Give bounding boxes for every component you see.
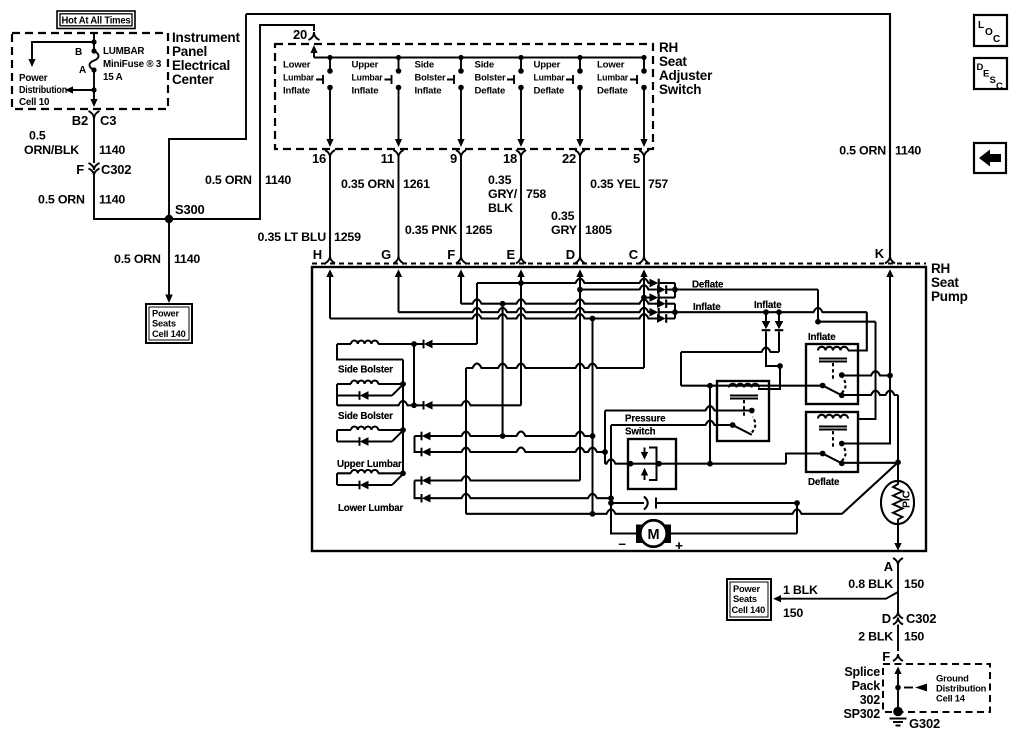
wire 758 pin18 to E [520,163,522,256]
switch feed bus [314,57,644,59]
svg-text:Panel: Panel [172,44,207,59]
solenoid coil group2 [337,383,351,385]
label 0.35 LT BLU 1259 [258,230,362,244]
check diode down 1 [765,312,767,321]
wire middle blade line [611,421,733,426]
check diode group1 [423,340,425,348]
pin K entry arrow [886,270,893,278]
arrow up at pin 20 inside switch box [313,51,315,58]
inflate diode output bus [674,304,676,319]
connector F / C302 [76,162,131,177]
node D on row2 [577,287,583,293]
label 0.35 PNK 1265 [405,223,493,237]
back arrow box [974,143,1006,173]
svg-text:Inflate: Inflate [415,86,442,97]
wire group3 left loop [336,430,338,442]
wire into splice pack [894,667,901,675]
wire row4 (G inflate feed) [399,308,650,313]
svg-text:0.35 LT BLU: 0.35 LT BLU [258,230,327,244]
node inflate row tap 1 [763,309,769,315]
svg-text:302: 302 [860,693,881,707]
wire inflate output row [675,308,867,313]
Power Seats Cell 140 box (bottom) [727,579,771,620]
wire group3 left loop [336,430,338,442]
wire inflate valve coil common [681,385,823,387]
wire pressure switch line [605,459,786,464]
svg-text:16: 16 [312,151,326,166]
svg-text:Deflate: Deflate [808,477,840,488]
solenoid coil group3 [337,429,351,431]
wire row4 (G inflate feed) [399,308,650,313]
svg-text:Power: Power [19,73,48,84]
svg-text:Adjuster: Adjuster [659,68,713,83]
wire group1 return loop [337,344,403,360]
solenoid coil group1 [337,343,351,345]
svg-text:1140: 1140 [265,173,291,187]
connector F splice pack [893,654,903,661]
pin A exit arrow [894,543,901,551]
thermistor PIC [881,481,914,524]
wire nest riser x611 to motor minus [611,425,638,534]
svg-text:E: E [507,247,516,262]
svg-text:758: 758 [526,187,546,201]
group4 right pair upper [415,480,422,482]
wire group1-group2 tie [413,344,415,405]
svg-text:Seat: Seat [931,275,959,290]
diagonal ground bus to PIC node [842,462,898,514]
pressure switch box [628,439,676,489]
wire S300 up to top bus [169,14,246,219]
wire group2 left loop [336,384,338,405]
arrow down at box bottom [90,99,97,107]
wire pin C stem [643,276,645,368]
svg-text:RH: RH [659,40,678,55]
wire pin D stem [579,276,581,481]
svg-text:Cell 14: Cell 14 [936,693,966,704]
motor plus riser [796,503,798,534]
wire deflate output row [675,289,818,291]
wire common riser x466 [465,368,467,514]
svg-text:RH: RH [931,261,950,276]
svg-text:1140: 1140 [99,193,125,207]
svg-text:1805: 1805 [585,223,612,237]
label 0.5 ORN 1140 (right of IPEC) [839,144,921,158]
pin D entry arrow [576,270,583,278]
pin H entry arrow [326,270,333,278]
svg-text:0.35 YEL: 0.35 YEL [590,177,640,191]
svg-text:F: F [882,649,890,664]
wire pin K stem down to deflate valve [842,276,890,444]
svg-text:G: G [381,247,391,262]
inline connector [611,502,644,504]
branch wire 1 BLK 150 to Power Seats [780,592,898,599]
svg-text:C302: C302 [101,162,131,177]
inflate valve contacts [820,383,826,389]
svg-text:757: 757 [648,177,668,191]
deflate valve contacts [820,451,826,457]
wire 1265 pin9 to F [460,163,462,256]
group4 right pair lower [415,481,422,499]
switch blade group3 [392,431,403,442]
wire deflate blade to pump node [839,461,845,467]
wire H drop to ground bus [592,319,594,514]
svg-text:MiniFuse ® 3: MiniFuse ® 3 [103,59,162,70]
wire inflate contact to K [842,371,890,376]
pin K entry arrow [886,270,893,278]
branch arrow left to Power Distribution [72,89,94,91]
wire pin E stem [520,276,522,405]
wire C302 to S300 [94,176,166,220]
svg-text:Deflate: Deflate [475,86,506,97]
switch blade group3 [392,431,403,442]
wire group2 bottom rail [337,401,414,406]
node splice [895,685,901,691]
motor M1 [636,525,650,544]
wire group4 left loop [336,473,338,485]
node D on row2 [577,287,583,293]
switch Upper Lumbar Inflate [352,55,403,147]
check diode group2 [337,395,359,397]
wire C return to common [466,364,644,369]
solenoid coil group4 [337,472,351,474]
group4 right pair lower [415,481,422,499]
diode cluster deflate D3 [644,297,650,299]
svg-text:A: A [79,65,86,76]
svg-text:18: 18 [503,151,517,166]
diode cluster deflate D2 [657,285,666,293]
wire inflate output row [675,308,867,313]
wire row1 (E deflate feed) [477,279,650,284]
wire middle blade line [611,421,733,426]
switch Side Bolster Inflate [415,55,465,147]
wire below fuse [93,70,95,101]
svg-text:Pump: Pump [931,289,968,304]
label 0.5 ORN 1140 (down branch) [114,252,200,266]
pin F connector [447,247,466,264]
wire pin K stem down to deflate valve [842,276,890,444]
middle valve contacts [749,408,755,414]
wire pin D stem [579,276,581,481]
svg-text:1140: 1140 [174,252,200,266]
switch blade group2 [392,385,403,396]
wire drop to pressure switch line [709,386,711,464]
wire y352 to left drop [681,348,779,353]
splice S300 [165,215,173,223]
wire group1 return loop [337,344,403,360]
svg-text:C: C [629,247,639,262]
svg-text:Switch: Switch [625,427,656,438]
svg-text:Deflate: Deflate [597,86,628,97]
label 0.5 ORN 1140 [38,193,125,207]
inflate diode output bus [674,304,676,319]
svg-text:Inflate: Inflate [283,86,310,97]
svg-text:G302: G302 [909,716,940,731]
svg-text:1140: 1140 [99,143,125,157]
svg-text:E: E [983,69,989,80]
wire row5 (H inflate feed) [330,314,657,319]
svg-text:Side Bolster: Side Bolster [338,411,393,422]
check diode group4 [337,484,359,486]
svg-text:Splice: Splice [844,665,880,679]
wire S300 down to Power Seats [168,223,170,296]
svg-text:Lumbar: Lumbar [534,73,565,84]
label 0.35 GRY 1805 [551,209,612,237]
diode cluster inflate D6 [657,314,666,322]
wire inflate drop to inflate valve [848,312,867,350]
pin C entry arrow [640,270,647,278]
solenoid coil group1 [337,343,351,345]
wire group1 feed riser to row1 [476,283,478,344]
svg-text:1265: 1265 [466,223,493,237]
svg-text:Upper: Upper [534,60,561,71]
thermistor PIC [881,481,914,524]
top bus wire to K [246,14,890,256]
svg-text:0.35 ORN: 0.35 ORN [341,177,395,191]
pin A exit arrow [894,543,901,551]
svg-text:GRY/: GRY/ [488,187,518,201]
arrow down to Power Distribution [28,59,35,67]
check diode rail to E [414,404,423,406]
Power Seats Cell 140 box [146,304,192,343]
relay valve Inflate [806,344,858,404]
label RH Seat Adjuster Switch [659,40,713,97]
svg-text:0.35: 0.35 [488,173,512,187]
wire inflate blade to pump feed [839,393,845,399]
relay valve Inflate [806,344,858,404]
node C diode tap [641,295,647,301]
svg-text:C: C [996,81,1003,92]
svg-text:0.5 ORN: 0.5 ORN [205,173,252,187]
svg-text:150: 150 [904,577,924,591]
wire C return to common [466,364,644,369]
wire nest riser x605 [604,411,606,464]
wire pin H stem [329,276,331,319]
svg-text:+: + [675,538,683,553]
pin 20 connector [293,27,320,42]
pin D entry arrow [576,270,583,278]
svg-text:BLK: BLK [488,201,513,215]
node E on deflate bus row1 [518,280,524,286]
wire middle contact line [605,406,752,411]
svg-text:Lumbar: Lumbar [597,73,628,84]
connector D / C302 [893,612,903,625]
switch blade group4 [392,474,403,485]
wire nest riser x605 [604,411,606,464]
RH Seat Pump box [312,267,926,551]
wire inflate blade to pump feed [839,393,845,399]
LOC reference box [974,15,1007,46]
label 0.5 ORN 1140 (upper branch) [205,173,291,187]
svg-text:0.5 ORN: 0.5 ORN [839,144,886,158]
svg-text:1261: 1261 [403,177,430,191]
relay valve Deflate [806,412,858,472]
pin C entry arrow [640,270,647,278]
svg-text:150: 150 [904,630,924,644]
wire inflate contact to K [842,371,890,376]
label 0.35 ORN 1261 [341,177,430,191]
svg-text:Pressure: Pressure [625,414,666,425]
wire 2 BLK 150 [897,625,899,652]
deflate diode output bus [674,283,676,298]
svg-text:Upper Lumbar: Upper Lumbar [337,459,402,470]
node K inflate valve tap [887,373,893,379]
pin 9 [450,150,466,166]
svg-text:Distribution: Distribution [19,85,67,96]
svg-text:O: O [985,27,993,38]
pressure switch box [628,439,676,489]
diagonal ground bus to PIC node [842,462,898,514]
svg-text:H: H [313,247,322,262]
svg-text:Inflate: Inflate [808,332,836,343]
svg-text:S300: S300 [175,202,205,217]
diode cluster inflate D5 [650,308,659,316]
svg-text:Lumbar: Lumbar [352,73,383,84]
node K inflate valve tap [887,373,893,379]
wire row2 (D deflate feed) [580,285,657,290]
pressure switch contacts [649,448,657,481]
svg-text:Side Bolster: Side Bolster [338,365,393,376]
pin G connector [381,247,403,264]
node E on deflate bus row1 [518,280,524,286]
wire S300 right to pin 20 [169,25,314,219]
svg-text:2 BLK: 2 BLK [858,630,893,644]
wire row3 drop x502.6 [502,304,504,436]
ground G302 [893,707,903,717]
svg-text:Seats: Seats [152,319,176,329]
svg-text:0.5 ORN: 0.5 ORN [114,252,161,266]
node row5 to motor branch [590,316,596,322]
pin E entry arrow [517,270,524,278]
wire deflate blade to pump node [839,461,845,467]
pin C connector [629,247,649,264]
pin 11 [381,150,404,166]
svg-text:9: 9 [450,151,457,166]
diode cluster inflate D6 [657,314,666,322]
check diode down 1 [765,312,767,321]
node below fuse [91,87,96,92]
diode cluster inflate D4 [657,300,666,308]
node C diode tap [641,295,647,301]
wire group4 left loop [336,473,338,485]
wire deflate output row [675,289,818,291]
svg-text:0.5 ORN: 0.5 ORN [38,193,85,207]
wire inflate drop to inflate valve [848,312,867,350]
svg-text:Inflate: Inflate [693,302,721,313]
diode cluster inflate D5 [650,308,659,316]
wire common riser x466 [465,368,467,514]
svg-text:SP302: SP302 [843,707,880,721]
svg-text:M: M [648,527,660,543]
svg-text:Inflate: Inflate [754,300,782,311]
inline connector [611,502,644,504]
svg-text:Power: Power [152,309,179,319]
relay valve middle [717,381,769,441]
svg-text:0.8 BLK: 0.8 BLK [848,577,893,591]
svg-text:Side: Side [415,60,434,71]
svg-text:F: F [447,247,455,262]
wire actuator common riser [402,360,404,474]
pin D connector [566,247,585,264]
diode cluster inflate D4 [657,300,666,308]
deflate diode output bus [674,283,676,298]
wire 1805 pin22 to D [579,163,581,256]
pin K connector [875,246,895,264]
wire 150 below A [897,565,899,612]
node inflate row tap 2 [776,309,782,315]
wire pin H stem [329,276,331,319]
wire branch to Power Distribution arrow [32,42,94,60]
check diode down 2 [778,312,780,321]
relay valve Deflate [806,412,858,472]
node row3 junction [500,301,506,307]
wire pin F stem [460,276,462,304]
svg-text:L: L [978,20,984,31]
svg-text:Pack: Pack [852,679,881,693]
svg-text:Lower: Lower [597,60,625,71]
svg-text:PIC: PIC [901,490,913,508]
svg-text:Lower: Lower [283,60,311,71]
switch blade group4 [392,474,403,485]
svg-text:11: 11 [381,151,394,166]
diode cluster deflate D1 [650,279,659,287]
svg-text:0.5: 0.5 [29,129,46,143]
svg-text:LUMBAR: LUMBAR [103,46,144,57]
wire 1261 pin11 to G [398,163,400,256]
svg-text:1259: 1259 [334,230,361,244]
svg-text:ORN/BLK: ORN/BLK [24,143,79,157]
check diode down 2 [778,312,780,321]
wire group1-group2 tie [413,344,415,405]
group3 right pair lower [415,436,422,452]
svg-text:Upper: Upper [352,60,379,71]
pin G entry arrow [395,270,402,278]
wire actuator common riser [402,360,404,474]
svg-text:15 A: 15 A [103,72,123,83]
node row5 to motor branch [590,316,596,322]
wire 1259 pin16 to H [329,163,331,256]
group3 right pair upper [415,435,422,437]
wire 757 pin5 to C [643,163,645,256]
switch Lower Lumbar Inflate [283,55,334,147]
svg-text:0.35: 0.35 [551,209,575,223]
solenoid coil group4 [337,472,351,474]
svg-text:Lower Lumbar: Lower Lumbar [338,503,403,514]
diode cluster deflate D3 [644,297,650,299]
svg-text:Power: Power [733,584,760,594]
svg-text:S: S [990,75,996,86]
svg-text:D: D [882,611,891,626]
svg-text:Cell 140: Cell 140 [732,605,766,615]
switch Lower Lumbar Deflate [597,55,648,147]
wire pin G stem [398,276,400,312]
diode cluster deflate D2 [657,285,666,293]
svg-text:Cell 140: Cell 140 [152,329,186,339]
svg-text:22: 22 [562,151,576,166]
wire middle contact line [605,406,752,411]
solenoid coil group3 [337,429,351,431]
pin E connector [507,247,526,264]
label 0.5 ORN/BLK 1140 [24,129,125,158]
pin A connector below pump [893,558,903,565]
Hot At All Times header box [57,11,135,29]
RH Seat Adjuster Switch dashed box [275,44,653,149]
motor M1 [636,525,650,544]
wire pin G stem [398,276,400,312]
pin H entry arrow [326,270,333,278]
svg-text:Electrical: Electrical [172,58,230,73]
wire group2 bottom rail [337,401,414,406]
svg-text:150: 150 [783,606,803,620]
